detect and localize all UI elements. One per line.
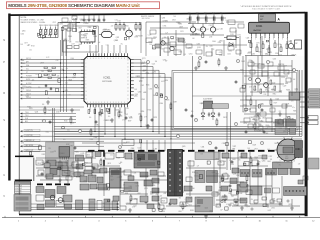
electrolytic capacitor C651	[221, 15, 223, 17]
svg-text:D300: D300	[212, 41, 216, 43]
IC601 pins bottom	[251, 33, 253, 36]
IC301 pins top	[87, 53, 89, 56]
boxed net label	[24, 139, 40, 142]
audio out cluster gray boxes	[36, 187, 44, 193]
label R538 value	[161, 95, 163, 98]
label D610 value	[140, 140, 142, 143]
wire above dashed border	[82, 142, 195, 144]
CRT socket radial pins	[299, 149, 301, 151]
label box HV	[122, 140, 134, 146]
voltage table row line	[15, 186, 31, 188]
wire QFP drop extensions	[94, 107, 96, 131]
ground symbol 6	[225, 66, 227, 68]
svg-text:0.01: 0.01	[106, 45, 109, 47]
capacitor C709	[151, 118, 153, 120]
svg-text:Q182: Q182	[116, 37, 120, 39]
wire IC301 right bus vertical 3	[152, 67, 154, 132]
voltage table header fill	[15, 182, 31, 185]
svg-text:47u: 47u	[73, 20, 76, 22]
audio block support components	[250, 43, 252, 48]
connector note gray box 1	[309, 89, 320, 99]
component box group extra bottom	[105, 153, 114, 159]
svg-text:10K: 10K	[248, 42, 251, 44]
frame bottom border line	[19, 214, 305, 216]
svg-text:R386: R386	[88, 27, 92, 29]
wire cluster C bus	[76, 22, 140, 24]
svg-text:47u: 47u	[171, 39, 174, 41]
gray block bottom center	[195, 197, 213, 212]
svg-text:Q63: Q63	[216, 29, 219, 31]
diode D302	[43, 35, 47, 38]
sub-circuit box around EEPROM cluster	[63, 26, 98, 52]
svg-text:0.01: 0.01	[90, 31, 93, 33]
IC301 pins left	[81, 59, 84, 61]
resistor cluster M	[254, 86, 256, 90]
dark dense block group mid	[134, 152, 160, 168]
connector arrow left 2	[20, 62, 22, 64]
IC X301 pins top	[81, 30, 83, 32]
svg-text:L219: L219	[71, 43, 74, 45]
svg-text:C65: C65	[220, 13, 223, 15]
capacitor C715	[235, 80, 237, 82]
svg-text:C433: C433	[197, 43, 201, 45]
wire stubs across right bar	[300, 91, 309, 93]
label R405 value	[93, 27, 96, 29]
svg-text:1uF: 1uF	[98, 42, 101, 44]
svg-text:1uF: 1uF	[27, 45, 30, 47]
ground symbol 1	[47, 100, 49, 102]
wire boxed row 4	[22, 145, 105, 147]
wire top vertical feeders	[83, 15, 85, 17]
capacitor C703	[74, 146, 76, 148]
label D738 value	[152, 208, 155, 211]
svg-text:C807: C807	[78, 27, 82, 29]
ground symbol 7	[257, 112, 259, 114]
partition vertical line	[33, 158, 35, 181]
label L427 value	[124, 37, 126, 40]
wire long vertical D	[98, 112, 100, 150]
wire boxed row 2	[22, 135, 105, 137]
wire long vertical I	[245, 56, 247, 112]
svg-text:R186: R186	[275, 53, 279, 55]
inductor L571	[227, 36, 236, 40]
svg-text:D201: D201	[260, 16, 264, 18]
svg-text:0.01: 0.01	[115, 40, 118, 42]
label L491 value	[266, 40, 268, 42]
svg-text:4.7K: 4.7K	[212, 49, 215, 51]
resistor R714	[198, 62, 200, 66]
svg-text:Q441: Q441	[209, 46, 213, 48]
resistor R738	[246, 176, 248, 180]
IC301 inner pin number band	[87, 58, 89, 60]
resistor R720	[254, 124, 256, 128]
scan tint lower band	[19, 141, 305, 212]
capacitor C452	[218, 112, 220, 114]
mid right extra wires	[248, 65, 292, 67]
capacitor C737	[257, 162, 259, 164]
wire aux row 4	[22, 121, 77, 123]
capacitor C735	[41, 172, 43, 174]
resistor R710	[170, 104, 172, 108]
label Q546 value	[242, 85, 245, 88]
ground symbol 8	[279, 112, 281, 114]
svg-text:R400: R400	[176, 40, 180, 42]
svg-text:47u: 47u	[206, 46, 209, 48]
capacitor C741	[191, 114, 193, 116]
wire IC301 bottom pin down	[124, 107, 126, 114]
label C519 value	[38, 74, 41, 78]
ground symbol 2	[71, 108, 73, 110]
tuner module gray region	[46, 142, 75, 177]
svg-text:C626: C626	[246, 37, 250, 39]
svg-text:10K: 10K	[183, 54, 186, 56]
wire boxed row 3	[22, 140, 105, 142]
wire IC301 bottom pin down	[119, 107, 121, 112]
svg-text:Q490: Q490	[288, 41, 292, 43]
wire aux row 3	[22, 119, 77, 121]
capacitor C731	[215, 146, 217, 148]
svg-text:L127: L127	[129, 32, 132, 34]
capacitor C725	[235, 200, 237, 202]
svg-text:C64: C64	[212, 13, 215, 15]
resistor R716	[250, 100, 252, 104]
svg-text:P: P	[3, 60, 5, 64]
svg-text:L365: L365	[220, 29, 223, 31]
label Q722 value	[236, 191, 239, 194]
svg-text:Q858: Q858	[84, 19, 88, 21]
resistor R730	[182, 204, 184, 208]
wire IC301 bottom pin down	[104, 107, 106, 112]
wire long vertical K	[299, 70, 301, 136]
wire aux row 1	[22, 113, 77, 115]
wire aux row 2	[22, 116, 77, 118]
wire M cluster	[257, 56, 259, 78]
label C740 value	[159, 209, 162, 211]
small parts inside sub-circuit box	[67, 28, 71, 31]
resistor R734	[46, 162, 48, 166]
svg-text:D745: D745	[229, 50, 233, 52]
board border dashed lower-left	[37, 183, 73, 185]
svg-text:U: U	[3, 173, 5, 177]
IC504 small gray rect	[289, 92, 300, 100]
capacitor C727	[145, 200, 147, 202]
transistor Q621 circle	[200, 27, 205, 32]
wire vertical crossing left fan	[66, 40, 68, 112]
voltage table row line	[15, 191, 31, 193]
svg-text:Q713: Q713	[277, 44, 281, 46]
svg-text:R743: R743	[153, 37, 157, 39]
wire loop rectangle outer	[172, 71, 298, 131]
svg-text:1uF: 1uF	[165, 33, 168, 35]
svg-text:D823: D823	[172, 20, 176, 22]
transistor Q802	[58, 198, 63, 203]
ground symbol 13	[291, 206, 293, 208]
wire boxed row 5	[22, 150, 105, 152]
label R588 value	[107, 108, 110, 111]
IC301 pins bottom	[87, 104, 89, 107]
IC401 block dark part	[204, 101, 213, 109]
svg-text:R100: R100	[80, 20, 84, 22]
label R654 value	[139, 158, 141, 160]
svg-text:C112: C112	[53, 22, 57, 24]
top band extra wires	[146, 21, 196, 23]
light gray bar module	[195, 152, 219, 160]
svg-text:MODELS 29N-3T08, GN29308 SCHEM: MODELS 29N-3T08, GN29308 SCHEMATIC DIAGR…	[8, 3, 140, 8]
transistor Q202 circle	[170, 46, 174, 50]
wire caps row bottom	[188, 23, 224, 25]
voltage table box	[15, 182, 31, 194]
frame top border line	[9, 12, 305, 16]
wire long vertical A	[52, 108, 54, 142]
svg-text:L571: L571	[238, 35, 242, 37]
svg-text:IC601: IC601	[256, 25, 263, 28]
short wire texture bottom band	[36, 157, 96, 159]
connector arrow left 11	[20, 94, 22, 96]
boxed net label	[24, 144, 40, 147]
svg-text:47u: 47u	[49, 29, 52, 31]
small vertical boxes row bottom	[76, 200, 83, 210]
label R754 value	[152, 206, 154, 208]
wire trimmer row to cluster C	[57, 23, 59, 38]
connector arrow left 5	[20, 73, 22, 75]
svg-text:C838: C838	[63, 40, 67, 42]
tuner IC pins	[59, 157, 61, 160]
connector arrow left 4	[20, 69, 22, 71]
wire IC301 top pin up	[119, 45, 121, 53]
svg-text:C205: C205	[227, 54, 231, 56]
tuner module inner boxes	[48, 160, 56, 166]
resistor R726	[130, 196, 132, 200]
capacitor C705	[95, 120, 97, 122]
IC X301 pins bottom	[81, 42, 83, 44]
label Q724 value	[225, 207, 228, 210]
svg-text:D766: D766	[163, 26, 167, 28]
ground symbol 3	[111, 118, 113, 120]
electrolytic capacitor C641	[213, 15, 215, 17]
svg-text:C333: C333	[21, 34, 25, 36]
svg-text:Q62: Q62	[206, 29, 209, 31]
wire IC301 left pin 5 to frame	[22, 73, 81, 75]
wire long vertical H	[242, 56, 244, 112]
pin dots in wide box	[285, 190, 286, 191]
label C581 value	[99, 112, 101, 115]
wire long vertical L	[301, 70, 303, 136]
top band extra parts	[162, 38, 169, 43]
parts right of tall block	[140, 172, 148, 177]
mid right extra parts	[248, 62, 254, 66]
svg-text:D784: D784	[94, 36, 98, 38]
svg-text:L502: L502	[65, 29, 68, 31]
electrolytic C612	[288, 43, 293, 48]
capacitor C729	[169, 202, 171, 204]
resistor R712	[218, 60, 220, 64]
svg-text:C375: C375	[256, 42, 260, 44]
boxed net label	[24, 149, 40, 152]
resistor band under QFP	[88, 110, 90, 114]
wire IC301 left pin 6 to frame	[22, 76, 81, 78]
transistor Q503	[256, 78, 261, 83]
svg-text:R579: R579	[136, 35, 140, 37]
wire IC301 top pin up	[107, 45, 109, 53]
wire long vertical J	[261, 36, 263, 77]
label D540 value	[160, 94, 162, 96]
wire IC301 bottom pin down	[94, 107, 96, 114]
resistor cluster left of IC301	[44, 67, 47, 69]
svg-text:C506: C506	[175, 37, 179, 39]
label C513 value	[74, 73, 76, 75]
board border dashed horizontal main	[88, 150, 276, 152]
svg-text:Q160: Q160	[63, 26, 67, 28]
wire main bus line 4	[54, 133, 302, 135]
svg-text:10K: 10K	[20, 44, 23, 46]
wire main bus line 5	[54, 136, 302, 138]
wire long vertical G	[230, 112, 232, 170]
resistor R740	[216, 120, 218, 124]
ceramic resonator CF301 circle	[126, 30, 133, 37]
gray blocks right of transformer	[195, 171, 205, 183]
wire main bus line 3	[54, 131, 302, 133]
resistor R722	[222, 176, 224, 180]
wires from table to right	[31, 203, 118, 205]
wire long vertical C	[65, 29, 67, 56]
speaker connector box	[295, 40, 302, 49]
trimmer resistor VR301	[40, 30, 42, 35]
wire audio block verticals	[251, 38, 253, 56]
svg-text:C608: C608	[91, 19, 95, 21]
ground symbol 9	[59, 178, 61, 180]
svg-text:WAVEFORM SYMBOL : SIGNAL: WAVEFORM SYMBOL : SIGNAL	[21, 21, 46, 24]
ground symbol 11	[205, 214, 207, 216]
svg-text:N: N	[3, 38, 5, 42]
wire IC301 left pin 9 to frame	[22, 87, 81, 89]
junction dots on bus	[94, 131, 95, 132]
svg-text:C61: C61	[188, 13, 191, 15]
wire main bus line 1	[54, 126, 302, 128]
transistor Q504	[264, 83, 269, 88]
svg-text:C321: C321	[180, 31, 184, 33]
svg-text:220: 220	[69, 42, 72, 44]
wire IC301 top pin up	[113, 45, 115, 53]
label R606 value	[38, 146, 41, 150]
wire transistor row bottom	[190, 34, 224, 36]
svg-text:D861: D861	[219, 40, 223, 42]
svg-text:L142: L142	[249, 52, 252, 54]
svg-text:10K: 10K	[149, 44, 152, 46]
capacitor C721	[263, 130, 265, 132]
resistor R736	[250, 158, 252, 162]
boxed net label	[24, 134, 40, 137]
wire long vertical F	[226, 112, 228, 170]
svg-text:R375: R375	[258, 51, 262, 53]
label D461 value	[202, 34, 204, 38]
svg-text:L233: L233	[209, 36, 212, 38]
scan tint mid band	[19, 56, 305, 141]
label L511 value	[45, 91, 47, 95]
bottom right block row 2	[237, 185, 248, 193]
resistor R702	[70, 118, 72, 122]
svg-text:R249: R249	[85, 34, 89, 36]
svg-text:C63: C63	[204, 13, 207, 15]
ground symbol 10	[129, 208, 131, 210]
svg-text:Q191: Q191	[252, 54, 256, 56]
svg-text:*: AT MODELS BE BUILT IN PARTS: *: AT MODELS BE BUILT IN PARTS WITH POWE…	[240, 5, 292, 8]
electrolytic capacitor C621	[197, 15, 199, 17]
wire main bus line 2	[54, 128, 302, 130]
IC601 audio amp body	[249, 22, 290, 33]
boxed net label	[24, 129, 40, 132]
bottom right small row 3	[265, 188, 271, 193]
svg-text:R356: R356	[179, 52, 183, 54]
label C473 value	[248, 40, 250, 42]
wire IC301 right bus vertical 5	[164, 74, 166, 137]
ruler tick row	[4, 216, 6, 218]
svg-text:C121: C121	[209, 25, 213, 27]
svg-text:R723: R723	[31, 46, 35, 48]
diode D301	[38, 33, 42, 36]
junction dots left fan	[60, 62, 61, 63]
trimmer resistor VR302	[45, 30, 47, 35]
svg-text:R356: R356	[266, 49, 270, 51]
capacitor C713	[205, 60, 207, 62]
ruler base line	[2, 217, 320, 219]
wire IC301 left pin 2 to frame	[22, 62, 81, 64]
wire mid horizontal rows	[19, 106, 84, 108]
label R699 value	[207, 161, 210, 164]
transistor Q631 circle	[210, 27, 215, 32]
label C467 value	[171, 37, 174, 39]
resistor R706	[118, 112, 120, 116]
wire IC301 left pin 7 to frame	[22, 80, 81, 82]
wire IC301 left pin 10 to frame	[22, 91, 81, 93]
svg-text:R313: R313	[48, 35, 52, 37]
label C605 value	[62, 127, 64, 129]
label L561 value	[244, 108, 247, 110]
label C783 value	[153, 45, 156, 49]
partition thick bar lower	[15, 180, 32, 182]
svg-text:L415: L415	[269, 52, 272, 54]
svg-text:330: 330	[161, 49, 164, 51]
label D411 value	[93, 30, 95, 34]
capacitor C719	[245, 130, 247, 132]
svg-text:C538: C538	[191, 26, 195, 28]
svg-text:4.7K: 4.7K	[84, 22, 87, 24]
label D602 value	[29, 152, 31, 155]
svg-text:LA42102: LA42102	[253, 29, 262, 32]
capacitor C711	[185, 108, 187, 110]
capacitor row small top	[83, 18, 85, 20]
transformer T471 inner pins	[169, 152, 170, 153]
CRT socket circle	[277, 139, 299, 161]
tall gray block left of transformer	[110, 168, 122, 188]
right margin scan bar	[305, 12, 308, 216]
label L430 value	[92, 31, 94, 35]
label C652 value	[158, 161, 160, 164]
svg-text:R: R	[3, 91, 5, 95]
svg-text:47u: 47u	[121, 44, 124, 46]
svg-text:D683: D683	[182, 42, 186, 44]
svg-text:Q762: Q762	[84, 36, 88, 38]
svg-text:10K: 10K	[192, 38, 195, 40]
diode D571	[229, 43, 233, 47]
label L567 value	[258, 105, 260, 108]
wire IC301 right bus vertical 1	[140, 60, 142, 127]
electrolytic capacitor C611	[189, 15, 191, 17]
IC401 block light part	[212, 104, 229, 109]
svg-text:Q163: Q163	[197, 47, 201, 49]
capacitor C717	[261, 108, 263, 110]
svg-text:4.7K: 4.7K	[55, 33, 58, 35]
capacitor C701	[49, 120, 51, 122]
